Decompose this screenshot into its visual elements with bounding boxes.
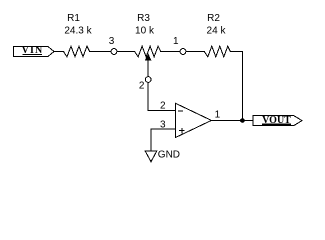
node 2 (145, 77, 151, 83)
node 3 (111, 49, 117, 55)
wire node 3 to R3 (117, 51, 135, 53)
wire op-amp output to junction (211, 120, 242, 122)
svg-text:24 k: 24 k (207, 26, 227, 37)
junction (240, 118, 245, 123)
svg-text:GND: GND (158, 150, 180, 161)
wire node 2 to op-amp inverting input (148, 82, 175, 110)
wire junction to VOUT (242, 120, 253, 122)
wire R3 to node 1 (161, 51, 180, 53)
net label VIN (14, 45, 55, 57)
resistor R2 (204, 46, 230, 57)
svg-text:R1: R1 (67, 13, 80, 24)
node 1 (180, 49, 186, 55)
svg-text:2: 2 (139, 81, 145, 92)
wire op-amp non-inverting input to ground (151, 129, 175, 151)
ground GND (145, 150, 180, 162)
wire node 1 to R2 (186, 51, 204, 53)
svg-text:1: 1 (215, 110, 221, 121)
net label VOUT (253, 115, 302, 126)
svg-text:2: 2 (160, 101, 166, 112)
potentiometer R3 (135, 46, 161, 60)
svg-text:24.3 k: 24.3 k (64, 26, 92, 37)
svg-text:10 k: 10 k (135, 26, 155, 37)
svg-text:3: 3 (160, 119, 166, 130)
resistor R1 (64, 46, 90, 57)
wire R1 to node 3 (90, 51, 111, 53)
svg-text:1: 1 (173, 36, 179, 47)
svg-text:R2: R2 (207, 13, 220, 24)
wire R3 wiper to node 2 (147, 60, 149, 76)
svg-text:3: 3 (109, 36, 115, 47)
wire R2 right to output junction (230, 52, 242, 121)
svg-text:R3: R3 (137, 13, 150, 24)
op-amp (175, 103, 211, 137)
wire VIN to R1 (54, 51, 64, 53)
